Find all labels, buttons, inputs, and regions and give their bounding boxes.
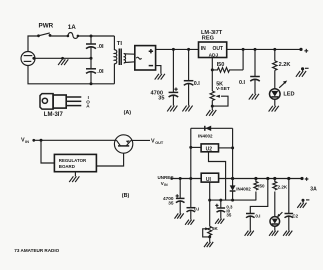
wire Vin to transistor	[34, 139, 117, 141]
ground chassis at mid wire	[58, 59, 68, 65]
node plug hot	[32, 57, 35, 60]
capacitor C2	[285, 179, 294, 231]
svg-text:0.I: 0.I	[194, 81, 200, 87]
node minus C	[302, 199, 305, 202]
label plus	[304, 49, 308, 53]
node output plus terminal	[299, 48, 302, 51]
wire U2 right	[219, 147, 233, 149]
svg-text:V-SET: V-SET	[216, 86, 230, 92]
svg-text:IN: IN	[25, 140, 29, 144]
wire branch to board	[41, 140, 54, 163]
ground 0.1 output	[249, 94, 259, 100]
wire output rail	[227, 48, 301, 50]
svg-text:I50: I50	[258, 184, 265, 189]
ground C2	[283, 231, 292, 236]
ground bridge minus	[155, 74, 165, 80]
svg-text:(A): (A)	[124, 110, 132, 116]
diode 1N4002 top	[205, 126, 211, 131]
label plus C	[305, 177, 309, 181]
label minus	[305, 67, 309, 69]
wire loop top	[191, 127, 233, 129]
ground pot C	[204, 237, 213, 247]
wire emitter to Vout	[131, 139, 150, 141]
ground 0.1 left C	[185, 220, 194, 225]
wire bridge minus to ground	[156, 66, 161, 74]
resistor 150	[212, 49, 243, 72]
node U2 right	[231, 146, 234, 149]
transformer T1 primary	[114, 36, 116, 84]
capacitor 4700/35	[169, 49, 179, 105]
wire U2 bottom to adj	[209, 152, 226, 200]
wire 0.1 right elbow	[250, 179, 267, 214]
package LM-317 TO-220	[40, 94, 81, 110]
node Vin terminal	[32, 139, 35, 142]
svg-text:REGULATOR: REGULATOR	[59, 158, 87, 163]
svg-text:UI: UI	[206, 177, 212, 183]
wire fuse to cap column	[78, 35, 115, 37]
regulator U LM-317T	[199, 42, 227, 58]
diode 1N4002 vertical	[230, 179, 236, 201]
svg-text:0.I: 0.I	[255, 214, 260, 219]
capacitor 0.1 output	[250, 49, 260, 93]
wire plug hot to cap mid	[34, 57, 91, 59]
svg-text:OUT: OUT	[213, 46, 224, 52]
ground 4700 C	[175, 213, 184, 218]
node pot bottom C	[208, 235, 211, 238]
potentiometer 5K C	[203, 226, 212, 237]
svg-text:REG: REG	[202, 36, 214, 42]
svg-text:PWR: PWR	[39, 22, 54, 29]
ground 0.1 input	[182, 106, 192, 112]
node rail 4700	[172, 48, 175, 51]
svg-text:C2: C2	[292, 214, 298, 219]
svg-text:LM-3I7: LM-3I7	[44, 112, 64, 118]
ground board	[69, 172, 79, 182]
svg-text:LED: LED	[283, 91, 294, 97]
svg-text:.0I: .0I	[97, 44, 104, 50]
node adj U1	[208, 199, 211, 202]
wire base down	[96, 153, 123, 166]
svg-text:BOARD: BOARD	[59, 164, 75, 169]
svg-text:35: 35	[168, 200, 174, 205]
node mid ground tap	[61, 57, 64, 60]
LED D2	[270, 212, 282, 226]
node bottom junction	[90, 82, 93, 85]
svg-text:A: A	[86, 104, 90, 109]
wire loop right vertical	[232, 128, 234, 178]
AC plug P1	[21, 52, 35, 66]
node rail diode C	[231, 177, 234, 180]
node adj diode	[231, 199, 234, 202]
node output C plus	[300, 177, 303, 180]
svg-text:IN: IN	[164, 183, 168, 187]
resistor 150 C	[254, 179, 258, 201]
wire ADJ pin	[211, 58, 213, 92]
node adj cap	[219, 199, 222, 202]
capacitor 0.1 right C	[246, 214, 255, 231]
node top junction	[90, 35, 93, 38]
node rail C2	[287, 177, 290, 180]
svg-text:73 AMATEUR RADIO: 73 AMATEUR RADIO	[14, 248, 59, 253]
regulator board box	[54, 154, 96, 171]
ground pot	[206, 106, 216, 116]
wire unreg rail	[172, 178, 202, 180]
svg-text:ADJ: ADJ	[209, 52, 219, 58]
svg-text:I50: I50	[217, 62, 225, 68]
svg-text:IN: IN	[201, 46, 206, 52]
svg-text:35: 35	[158, 96, 164, 102]
bridge rectifier BR1	[135, 46, 156, 70]
ground minus C	[297, 200, 306, 208]
wire plug bottom rail	[28, 66, 114, 84]
capacitor C .01 lower	[86, 58, 96, 84]
svg-text:2.2K: 2.2K	[278, 184, 288, 189]
capacitor 4700/35 C	[176, 179, 185, 214]
node rail 0.1 out	[254, 48, 257, 51]
node 150 to rail	[242, 48, 245, 51]
svg-text:(B): (B)	[122, 193, 130, 199]
ground 0.3 cap	[215, 219, 224, 224]
wire U2 left	[191, 146, 201, 148]
svg-text:3A: 3A	[310, 187, 317, 193]
label minus C	[306, 199, 309, 201]
svg-text:2.2K: 2.2K	[279, 62, 291, 68]
svg-text:1A: 1A	[68, 24, 77, 31]
node rail loop C	[189, 177, 192, 180]
wire U1 bottom	[209, 182, 211, 226]
svg-text:0.I: 0.I	[239, 80, 245, 86]
node pot bottom	[211, 105, 214, 108]
svg-text:OUT: OUT	[155, 141, 164, 145]
fuse F1 1A	[67, 33, 80, 39]
node ADJ	[211, 68, 214, 71]
transformer T1 core	[119, 49, 121, 66]
ground 4700	[167, 106, 177, 112]
svg-text:.0I: .0I	[97, 69, 104, 75]
svg-text:0.I: 0.I	[194, 206, 199, 211]
svg-text:IN4002: IN4002	[198, 133, 213, 138]
node rail 0.1	[187, 48, 190, 51]
resistor 2.2K C	[273, 179, 277, 217]
wire ADJ C	[210, 199, 257, 201]
transformer T1 secondary	[124, 54, 135, 63]
svg-text:35: 35	[226, 213, 231, 218]
node rail 4700 C	[179, 177, 182, 180]
node output minus terminal	[301, 67, 304, 70]
node rail LED branch	[273, 48, 276, 51]
ground LED C	[269, 226, 278, 236]
capacitor 0.1 left C	[187, 179, 196, 220]
wire plug top to switch	[28, 36, 39, 52]
resistor 2.2K	[273, 49, 277, 88]
wire switch to fuse	[50, 35, 68, 37]
svg-text:IN4002: IN4002	[236, 187, 251, 192]
potentiometer 5K V-SET	[210, 91, 228, 106]
node unreg terminal	[170, 177, 173, 180]
LED D1	[270, 81, 288, 100]
ground LED	[269, 99, 279, 111]
node rail 0.1 right C	[266, 177, 269, 180]
ground 0.1 right C	[245, 231, 254, 236]
transistor Q1	[114, 135, 132, 153]
ground minus terminal	[296, 69, 306, 77]
node U2 left	[189, 146, 192, 149]
capacitor C .01 upper	[86, 36, 96, 58]
wire rail after U1	[219, 178, 302, 180]
node branch to board	[40, 139, 43, 142]
wire DC input rail	[156, 48, 199, 50]
svg-text:5K: 5K	[212, 226, 219, 231]
U2 box	[201, 144, 218, 153]
U1 box	[201, 173, 218, 183]
node mid cap junction	[90, 57, 93, 60]
wire loop left vertical	[190, 128, 192, 178]
node rail 150 C	[254, 177, 257, 180]
switch PWR	[37, 33, 51, 37]
svg-text:TI: TI	[117, 41, 123, 47]
capacitor 0.1 input	[184, 49, 194, 105]
capacitor 0.3/10/35	[215, 200, 225, 219]
node rail 2.2K C	[273, 177, 276, 180]
svg-text:U2: U2	[206, 146, 213, 152]
